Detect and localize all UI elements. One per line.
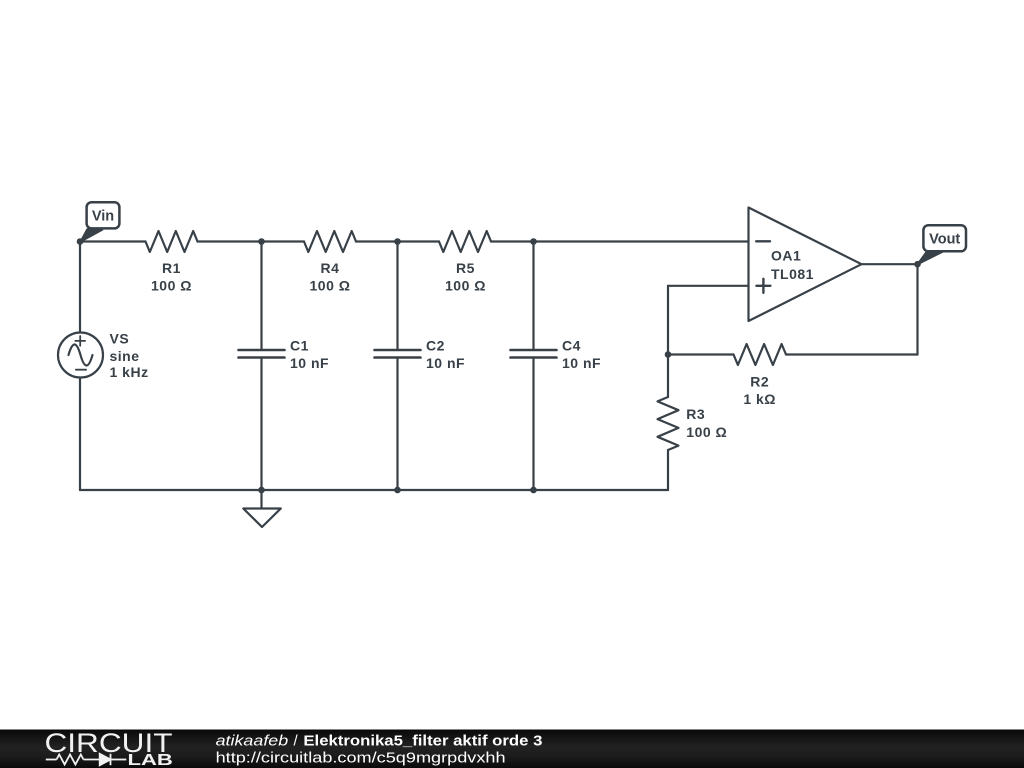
footer bar [0, 730, 1024, 768]
wire R3 to bottom rail [667, 450, 669, 490]
op-amp plus symbol [756, 279, 770, 293]
svg-text:Vin: Vin [92, 209, 114, 225]
resistor R1 [146, 231, 198, 252]
logo resistor-diode glyph [46, 754, 127, 765]
node C4 bottom junction [530, 487, 537, 494]
svg-text:100 Ω: 100 Ω [151, 278, 192, 294]
capacitor C1 [239, 350, 285, 358]
wire C2 to bottom rail [396, 358, 398, 491]
node C junction [394, 238, 401, 245]
capacitor C4 [511, 350, 557, 358]
svg-text:sine: sine [110, 348, 140, 364]
wire Vout node down to feedback [916, 264, 918, 354]
voltage source VS circle [58, 333, 103, 378]
node ground junction [258, 487, 265, 494]
node E junction [665, 351, 672, 358]
svg-text:10 nF: 10 nF [562, 355, 601, 371]
svg-text:100 Ω: 100 Ω [686, 424, 727, 440]
node Vout junction [914, 261, 921, 268]
svg-text:LAB: LAB [128, 752, 173, 768]
wire VS bottom to ground rail [79, 378, 81, 491]
svg-text:C4: C4 [562, 338, 581, 354]
svg-text:100 Ω: 100 Ω [445, 278, 486, 294]
wire node D down to C4 [532, 242, 534, 351]
ground [243, 509, 280, 528]
svg-text:C2: C2 [426, 338, 445, 354]
flag Vout [918, 225, 966, 264]
wire R2 to node E [668, 353, 734, 355]
wire R4 to node C [356, 240, 439, 242]
svg-text:OA1: OA1 [771, 248, 801, 264]
VS plus sign [75, 336, 85, 346]
wire node E up to plus input level [667, 286, 669, 355]
op-amp OA1 triangle [749, 208, 862, 322]
VS sine wave [69, 345, 93, 366]
wire R5 to op-amp inverting input [491, 240, 749, 242]
wire node E down to R3 [667, 355, 669, 398]
wire top rail left segment [80, 240, 146, 242]
svg-text:http://circuitlab.com/c5q9mgrp: http://circuitlab.com/c5q9mgrpdvxhh [216, 750, 506, 767]
svg-text:R3: R3 [686, 406, 705, 422]
resistor R3 [658, 397, 679, 450]
svg-text:10 nF: 10 nF [426, 355, 465, 371]
wire op-amp output to Vout node [862, 263, 918, 265]
wire Vin node down to VS top [79, 242, 81, 333]
wire node B down to C1 [260, 242, 262, 351]
node C2 bottom junction [394, 487, 401, 494]
capacitor C2 [375, 350, 421, 358]
svg-text:10 nF: 10 nF [290, 355, 329, 371]
ground stub [260, 490, 262, 509]
wire C1 to bottom rail [260, 358, 262, 491]
op-amp minus symbol [756, 240, 770, 242]
wire C4 to bottom rail [532, 358, 534, 491]
resistor R2 [734, 344, 787, 365]
svg-text:VS: VS [110, 331, 130, 347]
node B junction [258, 238, 265, 245]
svg-text:1 kΩ: 1 kΩ [743, 391, 776, 407]
flag Vin [81, 202, 120, 241]
svg-text:atikaafeb: atikaafeb [216, 732, 289, 749]
svg-text:R1: R1 [162, 260, 181, 276]
wire bottom rail [80, 489, 668, 491]
svg-text:R5: R5 [456, 260, 475, 276]
svg-text:R2: R2 [750, 373, 769, 389]
node D junction [530, 238, 537, 245]
wire to op-amp non-inverting input [668, 285, 749, 287]
svg-text:R4: R4 [321, 260, 340, 276]
svg-text:1 kHz: 1 kHz [110, 364, 149, 380]
svg-text:TL081: TL081 [771, 266, 814, 282]
svg-text:Elektronika5_filter aktif orde: Elektronika5_filter aktif orde 3 [303, 732, 542, 749]
resistor R4 [304, 231, 356, 252]
VS minus sign [76, 369, 86, 371]
resistor R5 [439, 231, 491, 252]
svg-text:Vout: Vout [929, 231, 960, 247]
node Vin junction [77, 238, 84, 245]
wire feedback right segment [786, 353, 918, 355]
svg-text:C1: C1 [290, 338, 309, 354]
wire node C down to C2 [396, 242, 398, 351]
wire R1 to node B [198, 240, 305, 242]
svg-text:100 Ω: 100 Ω [310, 278, 351, 294]
